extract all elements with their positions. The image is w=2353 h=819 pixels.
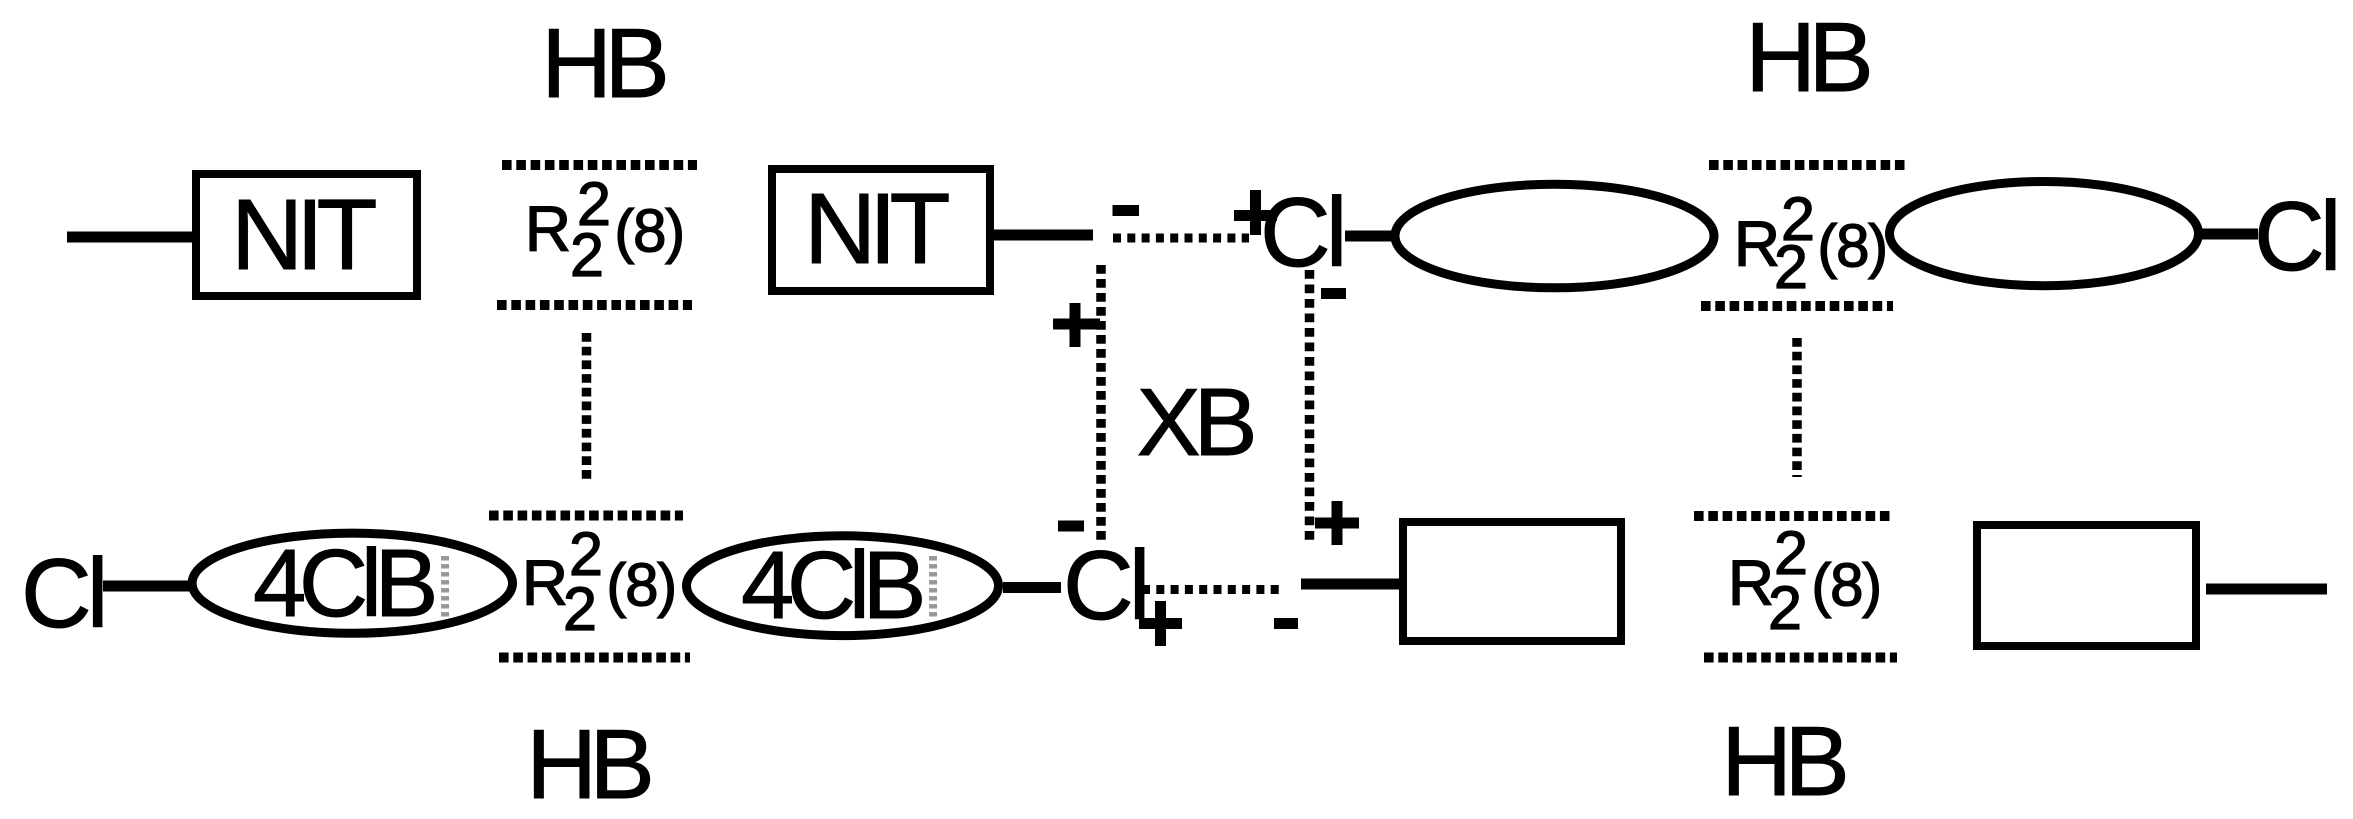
acceptor box 1 <box>1403 522 1621 641</box>
graph-set label R22(8) top-left <box>525 170 684 289</box>
graph-set label R22(8) bottom-right <box>1728 519 1881 642</box>
svg-text:(8): (8) <box>1811 552 1880 619</box>
4ClB ellipse 2 <box>687 536 999 636</box>
svg-text:XB: XB <box>1137 369 1253 476</box>
XB dotted line left <box>1096 265 1106 540</box>
svg-text:HB: HB <box>1721 706 1845 816</box>
svg-text:Cl: Cl <box>21 538 104 648</box>
HB dotted line bottom-right lower <box>1704 653 1897 663</box>
HB dotted line top-left lower <box>497 300 692 310</box>
wire 4ClB ellipse 2 to Cl <box>1003 582 1061 593</box>
minus charge bottom-middle <box>1274 618 1298 629</box>
dotted link column right <box>1792 338 1802 477</box>
HB dotted line top-right lower <box>1701 301 1893 311</box>
HB dotted line bottom-left upper <box>489 511 683 521</box>
XB dotted contact bottom-middle <box>1142 585 1281 594</box>
svg-text:HB: HB <box>526 709 650 819</box>
graph-set label R22(8) bottom-left <box>522 520 676 643</box>
svg-text:(8): (8) <box>614 198 683 265</box>
wire from acceptor box 2 <box>2206 584 2327 595</box>
svg-text:(8): (8) <box>1817 213 1886 280</box>
svg-text:HB: HB <box>541 8 665 118</box>
plus charge below Cl bottom <box>1139 601 1182 646</box>
HB dotted line bottom-left lower <box>499 653 690 663</box>
svg-text:2: 2 <box>563 575 597 643</box>
plus charge middle-left <box>1053 303 1100 347</box>
minus charge top <box>1113 205 1140 216</box>
plus charge lower-right <box>1315 501 1359 545</box>
HB dotted line bottom-right upper <box>1694 511 1890 521</box>
XB dotted line right <box>1305 270 1315 540</box>
svg-text:2: 2 <box>570 221 604 289</box>
minus charge middle-right <box>1321 288 1346 299</box>
wire Cl to 4ClB ellipse 1 <box>103 581 190 592</box>
svg-text:Cl: Cl <box>1063 530 1146 640</box>
inner dotted mark 2 <box>929 556 937 620</box>
wire to acceptor box 1 <box>1301 579 1403 590</box>
benzene ellipse 2 <box>1890 182 2199 286</box>
acceptor box 2 <box>1977 525 2196 646</box>
svg-text:4ClB: 4ClB <box>253 530 434 637</box>
NIT box 1 <box>196 174 417 296</box>
minus charge above Cl bottom <box>1058 521 1084 532</box>
4ClB ellipse 1 <box>192 533 512 633</box>
svg-text:(8): (8) <box>606 552 675 619</box>
wire Cl to ellipse 1 <box>1345 231 1393 242</box>
svg-text:4ClB: 4ClB <box>741 532 922 639</box>
wire ellipse 2 to Cl right <box>2202 229 2258 240</box>
svg-text:Cl: Cl <box>1260 177 1343 287</box>
benzene ellipse 1 <box>1395 184 1714 288</box>
dotted link column left <box>582 333 592 480</box>
svg-text:R: R <box>525 193 571 265</box>
svg-text:Cl: Cl <box>2254 181 2337 291</box>
HB dotted line top-right upper <box>1709 160 1905 170</box>
HB dotted contact top-middle <box>1113 234 1249 243</box>
plus charge top <box>1234 190 1277 235</box>
svg-text:NIT: NIT <box>804 173 949 285</box>
inner dotted mark 1 <box>441 556 449 618</box>
wire top-left <box>67 232 193 243</box>
svg-text:HB: HB <box>1745 2 1869 112</box>
NIT box 2 <box>772 169 990 291</box>
svg-text:NIT: NIT <box>231 179 376 291</box>
svg-text:R: R <box>522 547 568 619</box>
HB dotted line top-left upper <box>502 160 697 170</box>
graph-set label R22(8) top-right <box>1734 185 1887 301</box>
svg-text:2: 2 <box>1774 233 1808 301</box>
svg-text:2: 2 <box>1768 574 1802 642</box>
wire from NIT 2 <box>994 230 1093 241</box>
